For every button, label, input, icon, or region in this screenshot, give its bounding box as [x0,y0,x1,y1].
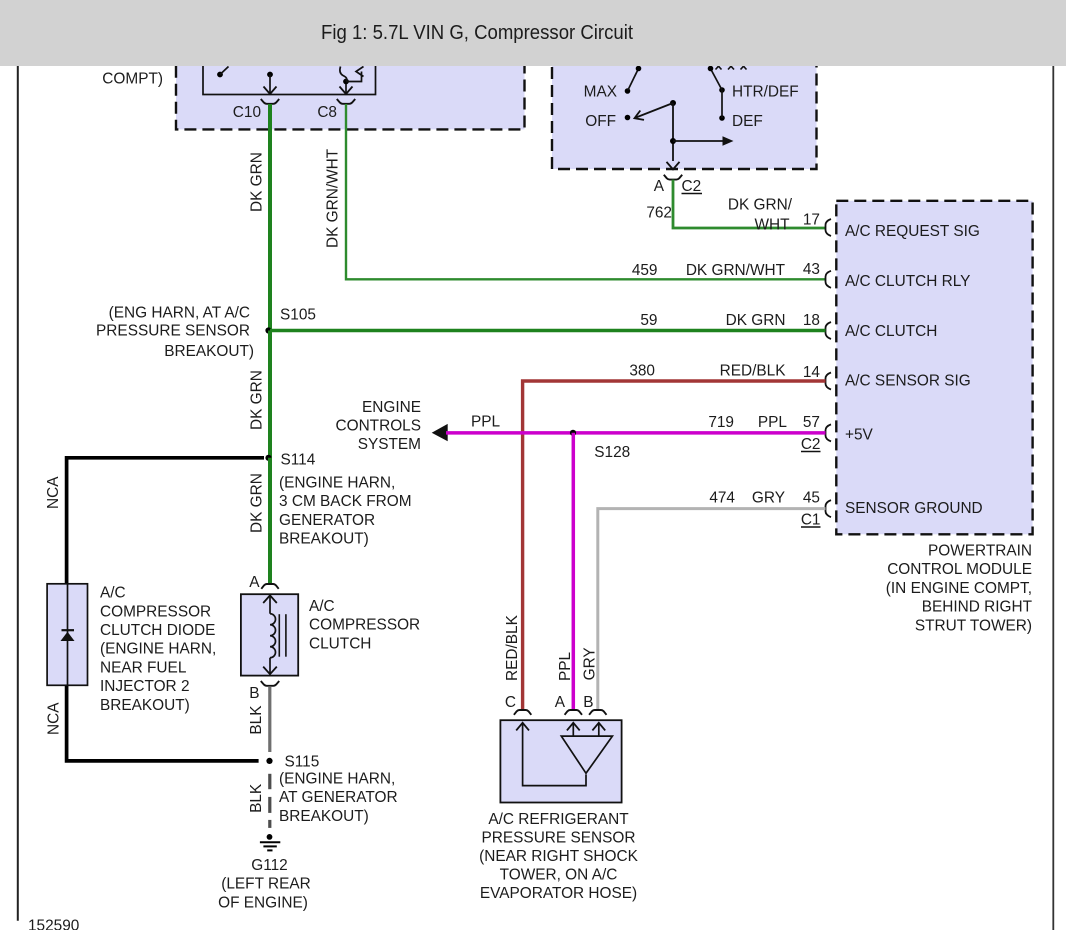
wire 459 C8 to PCM pin 43 DK GRN/WHT [346,104,826,279]
svg-text:MAX: MAX [584,84,617,101]
svg-text:PPL: PPL [471,413,501,430]
wire DK GRN S105 to S114 [268,331,272,458]
connector C at sensor [514,710,531,715]
PCM pin 57 connector and label +5V [826,424,832,441]
splice S128 [570,430,576,436]
frame left border [17,66,19,921]
svg-text:WHT: WHT [754,217,790,234]
relay switch contact dot (left) [217,72,223,78]
svg-text:459: 459 [632,262,658,279]
svg-text:CONTROL MODULE: CONTROL MODULE [887,561,1032,578]
svg-text:NCA: NCA [46,702,63,735]
wire 380 RED/BLK sensor C to PCM pin 14 [523,381,826,710]
svg-text:S115: S115 [285,754,320,771]
svg-text:45: 45 [803,490,820,507]
svg-text:(ENG HARN, AT A/C: (ENG HARN, AT A/C [109,304,250,321]
svg-text:TOWER, ON A/C: TOWER, ON A/C [500,866,618,883]
svg-text:C: C [505,694,516,711]
svg-text:RED/BLK: RED/BLK [504,614,521,681]
connector A at clutch [261,584,278,589]
svg-text:3 CM BACK FROM: 3 CM BACK FROM [279,493,412,510]
svg-text:(IN ENGINE COMPT,: (IN ENGINE COMPT, [886,580,1032,597]
svg-text:DK GRN/: DK GRN/ [728,197,793,214]
svg-text:A: A [555,694,566,711]
svg-text:A/C: A/C [309,598,335,615]
svg-text:PPL: PPL [758,414,788,431]
svg-text:CLUTCH: CLUTCH [309,635,371,652]
switch common leg with branch arrow [672,103,674,161]
PCM pin 17 connector and label A/C REQUEST SIG [826,219,832,236]
svg-text:C10: C10 [233,104,261,121]
connector C8 [337,99,355,104]
svg-text:59: 59 [640,312,657,329]
wire PPL engine controls to S128 to PCM pin 57 [446,431,826,435]
svg-text:B: B [583,694,593,711]
svg-text:GRY: GRY [752,490,785,507]
connector C10 [261,99,279,104]
svg-text:BREAKOUT): BREAKOUT) [164,343,254,360]
svg-text:DEF: DEF [732,113,763,130]
svg-text:BREAKOUT): BREAKOUT) [100,697,190,714]
connector A at sensor [565,710,582,715]
svg-text:PRESSURE SENSOR: PRESSURE SENSOR [482,829,636,846]
svg-text:DK GRN/WHT: DK GRN/WHT [686,262,786,279]
svg-text:719: 719 [708,414,734,431]
svg-text:A/C CLUTCH: A/C CLUTCH [845,323,937,340]
svg-text:SENSOR GROUND: SENSOR GROUND [845,500,983,517]
svg-text:NEAR FUEL: NEAR FUEL [100,659,187,676]
svg-text:57: 57 [803,414,820,431]
svg-text:COMPT): COMPT) [102,71,163,88]
svg-text:S128: S128 [594,444,630,461]
ground G112 [267,834,273,840]
sensor transducer triangle [561,736,612,773]
svg-text:INJECTOR 2: INJECTOR 2 [100,678,190,695]
splice S115 [266,758,272,764]
svg-text:C2: C2 [801,436,821,453]
svg-text:PPL: PPL [557,651,574,681]
svg-text:SYSTEM: SYSTEM [358,436,421,453]
svg-text:DK GRN: DK GRN [249,152,266,212]
PCM pin 45 connector and label SENSOR GROUND [826,500,832,517]
svg-text:ENGINE: ENGINE [362,399,421,416]
svg-text:A/C: A/C [100,585,126,602]
connector A C2 at switch exit [664,175,682,180]
svg-text:152590: 152590 [28,918,79,930]
svg-text:43: 43 [803,261,820,278]
svg-text:17: 17 [803,212,820,229]
switch wiper arm to OFF [670,100,676,106]
svg-text:RED/BLK: RED/BLK [720,363,787,380]
svg-text:C8: C8 [317,104,337,121]
diode symbol D1 [67,584,69,686]
svg-text:PRESSURE SENSOR: PRESSURE SENSOR [96,323,250,340]
relay inner housing box [203,46,376,95]
sensor internal pin A arrow [572,723,574,736]
relay contact arm and pin arrow to C8 [343,79,349,85]
svg-text:762: 762 [646,205,672,222]
wire BLK S115 to ground (dashed) [268,774,271,789]
svg-text:A: A [654,178,665,195]
svg-text:B: B [249,685,259,702]
svg-text:STRUT TOWER): STRUT TOWER) [915,617,1032,634]
svg-text:14: 14 [803,364,821,381]
svg-text:C1: C1 [801,512,821,529]
svg-text:A: A [249,574,260,591]
wire C10 to S105 DK GRN (vertical) [268,104,272,331]
svg-text:DK GRN/WHT: DK GRN/WHT [325,148,342,248]
svg-text:S114: S114 [281,452,316,469]
wire DK GRN S114 to clutch pin A [268,458,272,584]
svg-text:DK GRN: DK GRN [726,312,786,329]
svg-text:COMPRESSOR: COMPRESSOR [100,603,211,620]
A/C compressor clutch diode box [47,584,87,686]
A/C compressor clutch relay box (dashed, cut off at top) [176,50,525,129]
arrow to engine controls system [432,424,448,441]
svg-text:NCA: NCA [45,476,62,509]
svg-text:DK GRN: DK GRN [249,473,266,533]
svg-text:BEHIND RIGHT: BEHIND RIGHT [922,599,1033,616]
wire NCA S114 to diode (black) [67,458,264,584]
svg-text:380: 380 [629,363,655,380]
svg-text:BREAKOUT): BREAKOUT) [279,531,369,548]
svg-text:(NEAR RIGHT SHOCK: (NEAR RIGHT SHOCK [479,848,639,865]
powertrain control module box (dashed) [836,201,1032,535]
svg-text:BLK: BLK [248,705,265,735]
svg-text:G112: G112 [251,857,288,874]
PCM pin 43 connector and label A/C CLUTCH RLY [826,271,832,288]
svg-text:(LEFT REAR: (LEFT REAR [221,876,311,893]
svg-text:(ENGINE HARN,: (ENGINE HARN, [279,475,395,492]
wire PPL S128 to sensor pin A [572,433,576,710]
svg-text:A/C CLUTCH RLY: A/C CLUTCH RLY [845,273,970,290]
clutch coil L1 with arrows [263,595,277,603]
svg-text:GENERATOR: GENERATOR [279,512,375,529]
svg-text:OFF: OFF [585,113,616,130]
svg-text:HTR/DEF: HTR/DEF [732,84,799,101]
splice S114 [265,455,271,461]
cut-off text marks at box top [716,66,719,69]
svg-text:A/C REFRIGERANT: A/C REFRIGERANT [488,811,629,828]
relay pin arrow to C10 [267,72,273,78]
svg-text:GRY: GRY [582,647,599,680]
svg-text:+5V: +5V [845,427,874,444]
wire 762 switch to PCM pin 17 DK GRN/WHT [673,180,826,228]
wire 474 GRY sensor B to PCM pin 45 [598,509,826,710]
svg-text:OF ENGINE): OF ENGINE) [218,894,308,911]
svg-text:(ENGINE HARN,: (ENGINE HARN, [279,771,395,788]
frame right border [1052,66,1054,930]
svg-text:A/C REQUEST SIG: A/C REQUEST SIG [845,223,980,240]
svg-text:BLK: BLK [248,783,265,813]
svg-text:(ENGINE HARN,: (ENGINE HARN, [100,641,216,658]
figure title bar [0,0,1066,66]
wire BLK clutch B to S115 (gray) [268,686,271,752]
sensor internal pin B arrow [598,723,600,736]
svg-text:EVAPORATOR HOSE): EVAPORATOR HOSE) [480,885,637,902]
svg-text:S105: S105 [280,307,316,324]
splice S105 [265,327,271,333]
svg-text:Fig 1: 5.7L VIN G, Compressor: Fig 1: 5.7L VIN G, Compressor Circuit [321,21,633,44]
svg-text:CONTROLS: CONTROLS [335,418,421,435]
svg-text:474: 474 [709,490,735,507]
A/C compressor clutch box [241,594,298,675]
PCM pin 14 connector and label A/C SENSOR SIG [826,373,832,390]
clutch core lines [278,614,280,657]
svg-text:CLUTCH DIODE: CLUTCH DIODE [100,622,215,639]
svg-text:A/C SENSOR SIG: A/C SENSOR SIG [845,373,971,390]
svg-text:BREAKOUT): BREAKOUT) [279,808,369,825]
svg-text:18: 18 [803,312,820,329]
wire 59 S105 to PCM pin 18 DK GRN [270,329,826,332]
svg-text:POWERTRAIN: POWERTRAIN [928,543,1032,560]
A/C control switch assembly box (dashed, cut off at top) [552,50,817,169]
svg-text:C2: C2 [682,178,702,195]
PCM pin 18 connector and label A/C CLUTCH [826,322,832,339]
svg-text:AT GENERATOR: AT GENERATOR [279,789,398,806]
A/C refrigerant pressure sensor box [500,720,621,802]
svg-text:DK GRN: DK GRN [249,370,266,430]
connector B at clutch [261,681,279,686]
svg-text:COMPRESSOR: COMPRESSOR [309,617,420,634]
wire NCA diode to S115 (black) [67,685,259,761]
sensor internal pin C arrow loop [516,723,529,731]
connector B at sensor [589,710,606,715]
